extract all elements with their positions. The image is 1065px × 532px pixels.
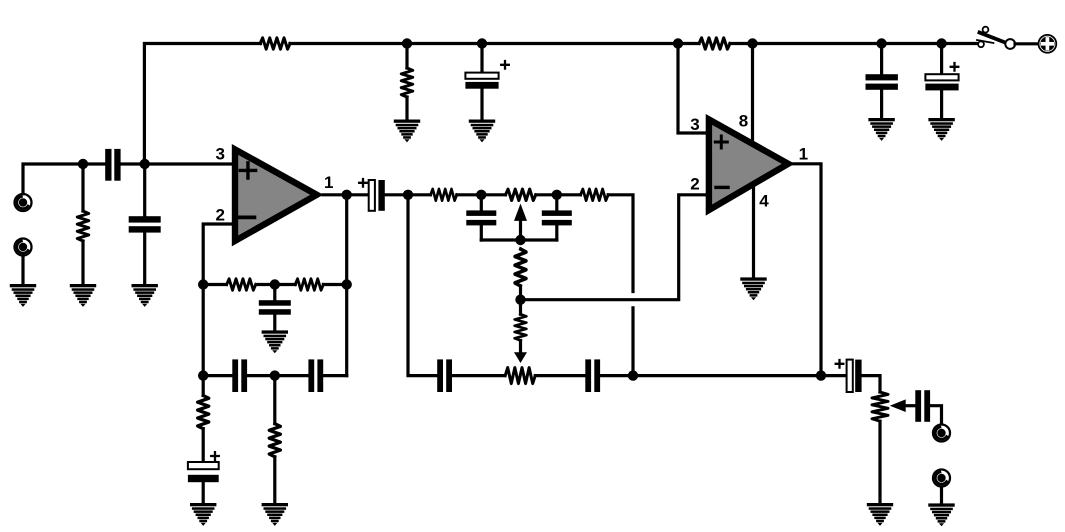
capacitor C5 electrolytic plates [465,61,508,89]
ground at C2 [132,284,158,307]
wire R3 to ground [405,97,408,120]
svg-text:1: 1 [324,173,333,192]
wire wiper bus [481,238,557,241]
ground at C17 [928,118,954,141]
output jack J5 [933,470,950,487]
capacitor C11 plates [232,359,247,392]
capacitor C3 electrolytic (interstage coupling) [359,179,385,211]
wire R8 to bass arrow [519,341,522,353]
wire feedback row2 right [323,374,347,377]
capacitor C13 electrolytic plates [188,452,219,482]
wire C5 to ground [480,89,483,120]
wire C3 to R4 [385,193,431,196]
node feedback row1 left [198,279,208,289]
wire C1 to op1 pin 3 [121,162,232,165]
ground at J5 [928,503,954,526]
node wiper bus [515,235,525,245]
ground at C13 [190,503,216,526]
node on rail at C5 branch [477,38,487,48]
svg-text:1: 1 [799,145,808,164]
svg-text:2: 2 [215,206,224,225]
resistor R4 tone left [430,189,456,200]
ground at C10 [262,330,288,353]
op-amp U1A [235,149,317,241]
capacitor C16 plates [866,74,898,90]
wire op1 output to feedback row1 [345,195,348,285]
potentiometer VR2 bass [505,368,535,384]
resistor R1 (supply rail left) [260,38,290,49]
node feedback row1 right [342,279,352,289]
node on rail at R3 branch [402,38,412,48]
capacitor C2 plates [129,216,161,232]
node bottom feedback column [628,370,638,380]
input jack J1 [15,194,32,211]
wire C15 to output jack [930,406,941,425]
node on rail at op-amp pin3 branch [673,38,683,48]
node feedback row2 mid [270,370,280,380]
resistor R8 [515,314,526,340]
wire R2 upper [81,164,84,211]
wire J5 to ground [940,487,943,503]
node on rail at C17 branch [936,38,946,48]
capacitor C9 plates [585,359,600,392]
svg-text:4: 4 [759,191,769,210]
wire op2 pin 8 from rail [751,44,754,141]
wire C8 to VR2 [452,374,505,377]
output jack J4 [933,425,950,442]
wire VR2 to C9 [535,374,585,377]
wire pot to R6 [536,193,581,196]
capacitor C12 plates [308,359,323,392]
wiper arrow of VR1 [514,204,527,240]
capacitor C15 output plates [915,390,930,422]
wire C16 to ground [880,90,883,118]
wire feedback row1 right [323,283,346,286]
capacitor C8 plates [437,359,452,392]
wire R11 upper [202,376,205,396]
wire switch to battery terminal [1015,42,1037,45]
node op2 output column [816,370,826,380]
resistor R10 feedback right [295,279,323,290]
wire feedback row1 mid [256,283,295,286]
wire C5 branch upper [480,44,483,73]
potentiometer VR1 treble [506,189,536,200]
wire R6 to feedback column upper [608,195,633,292]
ground at R2 [70,284,96,307]
resistor R11 [198,395,209,428]
switch S1 [977,27,1015,49]
resistor R7 [515,249,526,286]
wire feedback right column [345,285,348,376]
wire top rail left corner and segment [144,44,260,165]
ground at R13 [262,503,288,526]
node at op1 output [342,190,352,200]
node on rail at C16 branch [876,38,886,48]
node right of treble pot [552,190,562,200]
node at C2 top [140,159,150,169]
node at R2 top [78,159,88,169]
wire tone bottom left drop [408,195,437,376]
wire R2 to ground [81,241,84,284]
svg-text:8: 8 [739,111,748,130]
wire VR3 to ground [878,421,881,503]
wire op1 output [323,193,369,196]
resistor R12 (supply rail right) [699,38,730,49]
wire C14 to volume pot [862,376,880,392]
resistor R9 feedback left [227,279,256,290]
node tone input [403,190,413,200]
wire C13 to ground [202,482,205,503]
svg-text:2: 2 [690,175,699,194]
wire top rail to switch [730,42,977,45]
ground at VR3 [867,503,893,526]
wire op1 pin 2 [203,224,232,285]
wire R13 to ground [273,457,276,503]
wire C17 to ground [940,90,943,118]
capacitor C7 (treble right) [542,195,572,240]
wire op2 pin 4 to ground [752,188,755,277]
node left of treble pot [476,190,486,200]
ground at op2 pin 4 [740,277,766,300]
battery terminal B1 [1039,35,1057,53]
capacitor C17 electrolytic plates [925,63,958,90]
ground at C16 [868,118,894,141]
wire C17 branch upper [940,44,943,75]
wire input jack to coupling cap [23,164,105,194]
node mid feedback [515,295,525,305]
svg-text:3: 3 [215,145,224,164]
wire J2 to ground [21,256,24,284]
resistor R13 [269,424,280,457]
wiper arrow of VR3 [890,399,916,412]
node on rail at op-amp pin8 branch [747,38,757,48]
capacitor C1 input coupling plates [105,149,120,181]
wiper arrow of VR2 bass [514,352,527,363]
wire R13 upper [273,376,276,424]
op-amp U1B [709,119,788,210]
ground at J2 [10,284,36,307]
wire feedback row1 left [203,283,226,286]
wire R3 branch upper [405,44,408,69]
wire R7 to mid node [519,286,522,314]
wire R4 to pot [457,193,506,196]
node feedback row2 left [198,370,208,380]
wire C9 to output column [600,374,847,377]
input jack J2 [15,239,32,256]
svg-text:3: 3 [690,115,699,134]
wire top rail middle [290,42,699,45]
potentiometer VR3 volume [872,392,888,421]
wire C16 branch upper [880,44,883,75]
wire feedback row2 mid [247,374,308,377]
resistor R2 input shunt [77,211,88,241]
wire C2 to ground [143,233,146,284]
wire feedback row2 left [203,374,232,377]
wire op2 pin 3 from rail [678,44,706,134]
wire R11 to C13 [202,429,205,462]
capacitor C6 (treble left) [466,195,496,240]
wire op2 output [793,164,821,376]
node feedback row1 mid [270,279,280,289]
wire feedback left column [202,285,205,376]
wire C2 upper [143,164,146,216]
wire feedback column lower (after hop) [631,308,634,376]
ground at C5 [469,120,495,143]
capacitor C14 electrolytic output plates [836,360,862,392]
ground at R3 [394,120,420,143]
resistor R3 (rail to ground) [401,68,412,97]
capacitor C10 (feedback mid to ground) [259,285,291,331]
resistor R6 tone right [581,189,609,200]
wire mid node to op2 pin 2 [521,195,706,300]
